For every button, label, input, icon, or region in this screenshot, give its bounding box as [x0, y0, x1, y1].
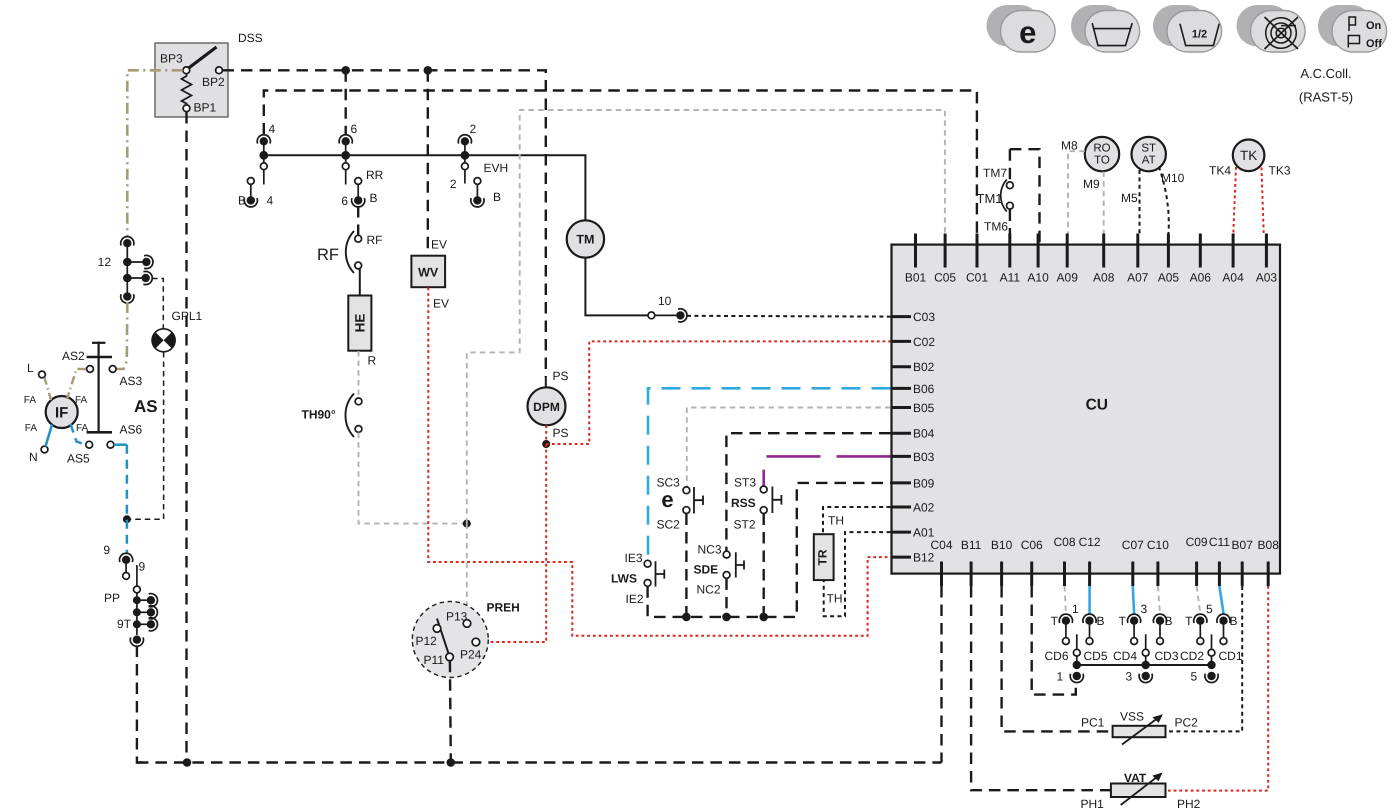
- pin B07: [1241, 562, 1244, 587]
- svg-text:ST3: ST3: [734, 476, 756, 490]
- svg-text:A07: A07: [1127, 271, 1149, 285]
- svg-text:DSS: DSS: [238, 31, 263, 45]
- contact EVH B plug: [474, 178, 481, 185]
- svg-text:C02: C02: [913, 335, 935, 349]
- contact PP stack: [136, 593, 138, 635]
- wire bus1 drop to WV: [427, 70, 429, 255]
- wire BP1 down: [185, 112, 187, 763]
- wire bottom bus: [137, 761, 941, 763]
- svg-text:SDE: SDE: [694, 563, 719, 577]
- pin A03: [1265, 234, 1268, 268]
- pin P13: [463, 620, 471, 628]
- wire DPM to red junction: [545, 425, 547, 444]
- svg-text:CD6: CD6: [1045, 649, 1069, 663]
- CU top pins: [916, 234, 1267, 268]
- svg-text:B: B: [1097, 614, 1105, 628]
- pin C05: [944, 234, 947, 268]
- svg-text:A08: A08: [1093, 271, 1115, 285]
- stator STAT: [1132, 137, 1166, 171]
- pin C03: [891, 315, 911, 318]
- wire gray B05: [687, 408, 891, 487]
- pin C10: [1156, 562, 1159, 587]
- switch RSS (ST): [760, 486, 767, 493]
- svg-text:C11: C11: [1209, 535, 1230, 549]
- wire B11 to VAT PH1: [971, 586, 1110, 790]
- svg-text:FA: FA: [76, 423, 89, 434]
- pin B09: [891, 481, 911, 484]
- svg-text:2: 2: [470, 122, 477, 136]
- svg-text:M8: M8: [1061, 139, 1078, 153]
- svg-text:CD2: CD2: [1180, 649, 1204, 663]
- lamp GPL1: [152, 329, 175, 352]
- switch DSS (door safety) box: [155, 43, 228, 117]
- svg-text:EV: EV: [431, 238, 447, 252]
- svg-text:CD3: CD3: [1155, 649, 1179, 663]
- wire 12 stub a: [127, 261, 145, 263]
- junction bus1 x427.8: [424, 66, 433, 75]
- svg-text:1/2: 1/2: [1192, 29, 1207, 41]
- wire ST2 drop: [763, 514, 765, 617]
- svg-text:CD5: CD5: [1084, 649, 1108, 663]
- svg-text:CD1: CD1: [1219, 649, 1243, 663]
- svg-text:B03: B03: [913, 450, 935, 464]
- thermal cutout TK: [1233, 140, 1265, 172]
- junction bus/PREH: [447, 758, 456, 767]
- svg-text:B02: B02: [913, 360, 935, 374]
- pole group 1: [1076, 634, 1078, 649]
- connector 12 right b: [142, 271, 153, 284]
- wire C10 (gray): [1158, 586, 1160, 614]
- svg-text:4: 4: [269, 122, 276, 136]
- svg-text:C07: C07: [1122, 538, 1144, 552]
- wire B09 common: [648, 483, 891, 617]
- svg-text:TR: TR: [816, 549, 830, 565]
- svg-text:4: 4: [267, 194, 274, 208]
- connector CD: T5: [1194, 614, 1207, 625]
- button On/Off: [1318, 5, 1387, 52]
- svg-text:SC3: SC3: [657, 476, 681, 490]
- connector 12 bottom: [121, 292, 134, 303]
- pole group 3: [1145, 634, 1147, 649]
- pin A11: [1008, 234, 1011, 268]
- svg-text:T: T: [1185, 614, 1193, 628]
- pin A09: [1066, 234, 1069, 268]
- svg-text:VSS: VSS: [1120, 710, 1144, 724]
- wire TK4 (red): [1233, 167, 1236, 234]
- svg-text:TH: TH: [827, 592, 843, 606]
- CU left pin labels: [913, 310, 935, 565]
- terminal N: [41, 446, 48, 453]
- wire C04 to bottom bus: [940, 586, 943, 763]
- svg-text:AS2: AS2: [62, 349, 85, 363]
- wire black B04: [726, 433, 890, 551]
- wire RF to HE: [359, 269, 361, 296]
- button no-spin (crossed coil): [1237, 5, 1306, 52]
- wire C11 (cyan): [1219, 586, 1223, 614]
- pin P24: [472, 638, 480, 646]
- pin B02: [891, 365, 911, 368]
- svg-text:B: B: [1165, 614, 1173, 628]
- wire 9T to bottom bus: [137, 646, 148, 763]
- wire P11 to bottom bus: [449, 661, 452, 763]
- wire SC2 drop: [685, 514, 687, 617]
- svg-text:TK4: TK4: [1209, 164, 1231, 178]
- connector CD: B5: [1217, 614, 1230, 625]
- connector 9T bottom: [130, 636, 143, 647]
- svg-text:A10: A10: [1027, 271, 1049, 285]
- svg-text:M9: M9: [1083, 177, 1100, 191]
- svg-text:B09: B09: [913, 476, 935, 490]
- switch LWS (IE): [644, 560, 651, 567]
- wire C09 (gray): [1197, 586, 1201, 614]
- svg-text:A11: A11: [1000, 271, 1021, 285]
- DSS lever: [186, 47, 217, 70]
- wire teal IF-AS5: [71, 424, 86, 445]
- svg-text:B01: B01: [905, 271, 927, 285]
- svg-text:9: 9: [103, 543, 110, 557]
- svg-text:FA: FA: [25, 423, 38, 434]
- svg-text:R: R: [368, 354, 377, 368]
- button half load 1/2: [1153, 5, 1222, 52]
- switch TM1: [1007, 182, 1014, 189]
- svg-text:B10: B10: [991, 538, 1013, 552]
- svg-text:9T: 9T: [117, 617, 132, 631]
- wire red PS to P24: [480, 444, 547, 642]
- pin C11: [1218, 562, 1221, 587]
- svg-text:PS: PS: [553, 426, 569, 440]
- switch SDE (NC): [723, 551, 730, 558]
- pin A06: [1199, 234, 1202, 268]
- svg-text:DPM: DPM: [533, 400, 560, 414]
- svg-text:A06: A06: [1190, 271, 1212, 285]
- svg-text:WV: WV: [418, 266, 439, 280]
- wire red to C02: [546, 341, 890, 444]
- wire purple B03 to ST3: [764, 456, 891, 485]
- svg-text:5: 5: [1206, 602, 1213, 616]
- svg-text:M5: M5: [1121, 191, 1138, 205]
- svg-text:FA: FA: [75, 395, 88, 406]
- svg-text:AS3: AS3: [120, 374, 143, 388]
- CU bottom pins: [942, 562, 1269, 587]
- junction 12 a: [123, 258, 132, 267]
- pin A07: [1136, 234, 1139, 268]
- wire 12 stack: [126, 243, 128, 293]
- contact 2: connector: [458, 135, 471, 146]
- junction gray: [463, 520, 471, 528]
- svg-text:B07: B07: [1232, 538, 1254, 552]
- svg-text:6: 6: [351, 122, 358, 136]
- svg-text:B11: B11: [961, 538, 982, 552]
- CU left pins: [891, 317, 911, 557]
- svg-text:3: 3: [1126, 670, 1133, 684]
- svg-text:B08: B08: [1258, 538, 1280, 552]
- control unit CU: [892, 245, 1281, 574]
- svg-text:AS6: AS6: [120, 423, 143, 437]
- svg-text:C10: C10: [1147, 538, 1169, 552]
- junction GPL1/blue: [123, 515, 131, 523]
- svg-text:IE3: IE3: [625, 551, 643, 565]
- wire M8 (gray): [1068, 151, 1085, 233]
- svg-text:1: 1: [1057, 670, 1064, 684]
- svg-text:AS5: AS5: [67, 452, 90, 466]
- svg-text:12: 12: [98, 255, 112, 269]
- contact 6: connector: [339, 135, 352, 146]
- svg-text:PREH: PREH: [487, 601, 520, 615]
- svg-text:6: 6: [341, 194, 348, 208]
- wire olive AS2-IF: [67, 369, 86, 399]
- svg-text:(RAST-5): (RAST-5): [1299, 90, 1353, 105]
- connector CD: B3: [1153, 614, 1166, 625]
- wire TM branch A11-A10: [1009, 149, 1011, 181]
- svg-text:TM6: TM6: [984, 220, 1008, 234]
- svg-text:CU: CU: [1086, 397, 1108, 414]
- resistor BP3-BP1: [182, 73, 192, 105]
- svg-text:TH: TH: [828, 514, 844, 528]
- junction bus/DSS: [183, 758, 192, 767]
- svg-text:P13: P13: [446, 610, 468, 624]
- svg-text:VAT: VAT: [1124, 771, 1147, 785]
- wire HE to TH90 (gray): [358, 351, 360, 398]
- connector CD: T3: [1128, 614, 1141, 625]
- wire C07 (cyan): [1133, 586, 1134, 614]
- potentiometer VSS: [1113, 726, 1166, 737]
- motor timer TM: [567, 220, 604, 257]
- connector 9: [120, 553, 133, 564]
- svg-text:PH2: PH2: [1177, 797, 1201, 811]
- svg-text:T: T: [1051, 614, 1059, 628]
- junction bus1 x345.7: [341, 66, 350, 75]
- pin C09: [1195, 562, 1198, 587]
- svg-text:AT: AT: [1142, 155, 1156, 167]
- svg-text:C09: C09: [1186, 535, 1208, 549]
- svg-text:C05: C05: [934, 271, 956, 285]
- svg-text:e: e: [661, 487, 673, 512]
- wire M5: [1139, 170, 1141, 234]
- wire bus1 BP2 to DPM: [223, 70, 546, 377]
- wire B10 to VSS PC1: [1002, 586, 1113, 731]
- wire 10 to C03: [687, 315, 891, 318]
- contact 4 B plug: [247, 178, 254, 185]
- button e (program): [987, 5, 1056, 52]
- svg-text:B: B: [1230, 614, 1238, 628]
- wire C08 (gray): [1065, 586, 1066, 614]
- switch TH90: [355, 398, 362, 405]
- wire C06 to connector 1: [1032, 586, 1076, 695]
- pin B05: [891, 406, 911, 409]
- svg-text:1: 1: [1072, 602, 1079, 616]
- svg-text:N: N: [29, 450, 38, 464]
- pin C02: [891, 340, 911, 343]
- svg-text:C08: C08: [1053, 535, 1075, 549]
- pin C12: [1088, 562, 1091, 587]
- pole group 5: [1211, 634, 1213, 649]
- valve WV: [411, 256, 445, 288]
- potentiometer VAT: [1111, 784, 1166, 798]
- pin C04: [940, 562, 943, 587]
- svg-text:BP2: BP2: [202, 75, 225, 89]
- svg-text:B05: B05: [913, 401, 935, 415]
- svg-text:TM7: TM7: [983, 166, 1007, 180]
- pin B06: [891, 387, 911, 390]
- connector group CD: T1: [1059, 614, 1072, 625]
- svg-text:M10: M10: [1161, 171, 1185, 185]
- wire teal IF-N: [46, 425, 53, 447]
- svg-text:P12: P12: [416, 634, 438, 648]
- wire A01 to TR: [824, 532, 891, 616]
- pin A05: [1167, 234, 1170, 268]
- svg-text:LWS: LWS: [611, 572, 637, 586]
- pin B03: [891, 455, 911, 458]
- PREH lever: [437, 619, 449, 656]
- junction 12 b: [123, 274, 132, 283]
- svg-text:SC2: SC2: [657, 518, 681, 532]
- svg-text:RR: RR: [366, 168, 384, 182]
- svg-text:EVH: EVH: [484, 161, 509, 175]
- wire red WV down: [428, 287, 890, 635]
- svg-text:BP1: BP1: [194, 101, 217, 115]
- wire bus1 drop to contact 6: [345, 70, 347, 134]
- junction SC2/B09: [682, 613, 691, 622]
- wire teal AS6 down: [114, 443, 127, 446]
- svg-text:B: B: [238, 194, 246, 208]
- wire GPL1 link from 12: [152, 279, 163, 329]
- wire GPL1 to AS6 wire junction: [129, 352, 164, 519]
- wire TH90 to gray junction: [359, 433, 465, 524]
- pin C01: [976, 234, 979, 268]
- svg-text:C04: C04: [930, 538, 952, 552]
- svg-text:ST2: ST2: [734, 518, 756, 532]
- contact AS2: [87, 366, 94, 373]
- svg-text:B: B: [370, 191, 378, 205]
- svg-text:PC2: PC2: [1175, 716, 1199, 730]
- pin A04: [1232, 234, 1235, 268]
- contact AS6: [107, 441, 114, 448]
- svg-text:9: 9: [139, 560, 146, 574]
- wire gray C05 net: [467, 110, 945, 524]
- svg-text:C01: C01: [966, 271, 988, 285]
- svg-text:AS: AS: [134, 397, 158, 416]
- pin B11: [970, 562, 973, 587]
- pin A02: [891, 506, 911, 509]
- svg-text:5: 5: [1191, 670, 1198, 684]
- wire A02 to TR: [823, 507, 891, 534]
- pin C06: [1030, 562, 1033, 587]
- junction ST2/B09: [759, 613, 768, 622]
- terminal L: [39, 371, 46, 378]
- motor ROTO: [1085, 137, 1119, 171]
- pin A08: [1102, 234, 1105, 268]
- svg-text:A09: A09: [1057, 271, 1079, 285]
- switch RF: [355, 235, 362, 242]
- connector CD: B1: [1083, 614, 1096, 625]
- svg-text:C03: C03: [913, 310, 935, 324]
- svg-text:e: e: [1019, 15, 1036, 50]
- wire B07 to VSS PC2: [1166, 586, 1242, 731]
- svg-text:A05: A05: [1158, 271, 1180, 285]
- svg-text:A04: A04: [1222, 271, 1244, 285]
- svg-text:HE: HE: [353, 314, 368, 333]
- svg-text:Off: Off: [1366, 38, 1382, 50]
- svg-text:A.C.Coll.: A.C.Coll.: [1300, 66, 1351, 81]
- connector 12 top: [121, 237, 134, 248]
- switch e (SC): [683, 487, 690, 494]
- wire NC2 drop: [725, 578, 727, 617]
- pin B01: [914, 234, 917, 268]
- svg-text:B12: B12: [913, 551, 935, 565]
- svg-text:C06: C06: [1021, 538, 1043, 552]
- svg-text:TM1: TM1: [977, 191, 1003, 206]
- svg-text:IE2: IE2: [626, 592, 644, 606]
- resistor TR: [814, 534, 834, 580]
- svg-text:A03: A03: [1256, 271, 1278, 285]
- button wash tub: [1071, 5, 1140, 52]
- svg-text:P24: P24: [460, 648, 482, 662]
- svg-text:PP: PP: [104, 591, 120, 605]
- wire TM to 10: [585, 258, 648, 316]
- svg-text:T: T: [1119, 614, 1127, 628]
- contact 4: connector: [257, 135, 270, 146]
- pin BP3: [183, 67, 190, 74]
- svg-text:B04: B04: [913, 427, 935, 441]
- pin BP2: [216, 67, 223, 74]
- pin B10: [1000, 562, 1003, 587]
- switch AS actuator bar: [87, 342, 112, 433]
- pin P12: [433, 625, 441, 633]
- junction red PS: [542, 440, 550, 448]
- svg-text:P11: P11: [424, 653, 445, 667]
- svg-text:ST: ST: [1141, 143, 1156, 155]
- pin P11: [446, 653, 454, 661]
- wire gray into P13: [466, 524, 468, 617]
- svg-text:TO: TO: [1094, 155, 1110, 167]
- CU top pin labels: [905, 271, 1278, 285]
- wire cyan B06: [648, 388, 891, 560]
- wire TK3 (red): [1262, 168, 1264, 234]
- svg-text:FA: FA: [24, 395, 37, 406]
- wire CD pole bus: [1077, 664, 1212, 666]
- svg-text:IF: IF: [55, 405, 68, 422]
- svg-text:On: On: [1366, 20, 1382, 32]
- fuse IF: [46, 396, 78, 428]
- svg-text:B06: B06: [913, 382, 935, 396]
- pin A01: [891, 531, 911, 534]
- svg-text:NC3: NC3: [698, 543, 722, 557]
- pin B08: [1267, 562, 1270, 587]
- svg-text:A02: A02: [913, 500, 935, 514]
- preheater PREH: [412, 602, 488, 678]
- svg-text:TK3: TK3: [1269, 164, 1291, 178]
- svg-text:TH90°: TH90°: [302, 408, 336, 422]
- svg-text:BP3: BP3: [160, 52, 183, 66]
- svg-text:3: 3: [1141, 602, 1148, 616]
- pin BP1: [183, 105, 190, 112]
- solid bus line: [264, 155, 586, 220]
- pin C08: [1063, 562, 1066, 587]
- svg-text:NC2: NC2: [697, 583, 721, 597]
- pin B04: [891, 432, 911, 435]
- svg-text:RSS: RSS: [731, 496, 756, 510]
- svg-text:TM: TM: [576, 233, 594, 247]
- wire C12 (cyan): [1088, 586, 1091, 614]
- svg-text:10: 10: [658, 294, 672, 308]
- wire 6B to RF: [357, 206, 359, 235]
- wire olive BP3 to connector 12: [127, 70, 183, 237]
- svg-text:EV: EV: [433, 297, 449, 311]
- wire B08 to VAT PH2 (red): [1166, 586, 1268, 791]
- wire M10: [1159, 167, 1169, 234]
- wire M9 (gray): [1103, 172, 1105, 234]
- wire olive 12 to AS3: [116, 302, 127, 369]
